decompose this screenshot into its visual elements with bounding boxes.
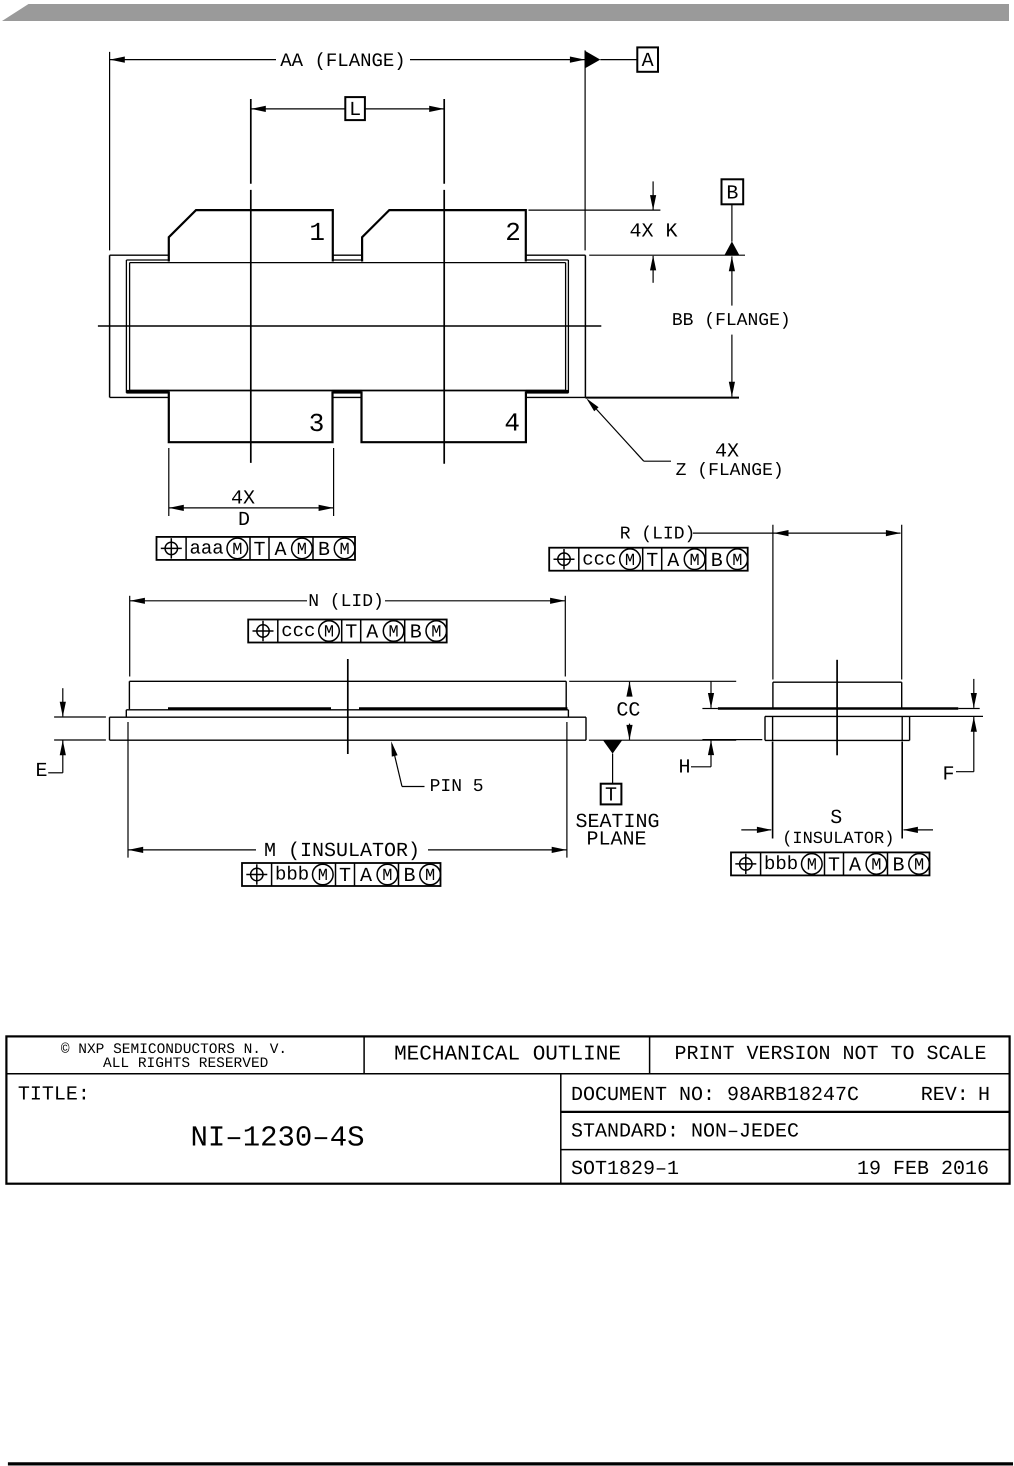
- svg-text:T: T: [646, 550, 658, 573]
- header bar: [2, 4, 1009, 21]
- svg-text:M: M: [625, 552, 635, 571]
- svg-text:ccc: ccc: [582, 548, 616, 570]
- svg-text:N (LID): N (LID): [308, 592, 384, 612]
- svg-text:Z (FLANGE): Z (FLANGE): [676, 461, 784, 481]
- svg-text:R (LID): R (LID): [620, 524, 696, 544]
- dimension N (LID): [129, 596, 131, 677]
- svg-text:T: T: [828, 855, 840, 878]
- svg-text:4X: 4X: [231, 488, 255, 511]
- svg-text:H: H: [978, 1084, 990, 1107]
- lid (end view): [772, 682, 774, 708]
- feature control frame ccc (R): [549, 548, 748, 571]
- leads (front view): [168, 707, 331, 709]
- svg-text:B: B: [892, 855, 904, 878]
- insulator (end view): [765, 715, 910, 717]
- leader PIN 5: [392, 744, 402, 787]
- title block table: [6, 1036, 1009, 1183]
- lid outline inner (top view): [129, 263, 131, 391]
- feature control frame aaa: [157, 537, 356, 560]
- dimension E: [54, 716, 106, 718]
- svg-text:M: M: [324, 624, 334, 643]
- svg-text:BB (FLANGE): BB (FLANGE): [672, 311, 791, 331]
- datum T seating plane symbol: [603, 740, 622, 753]
- svg-text:4: 4: [504, 408, 520, 438]
- footer rule: [8, 1462, 1013, 1465]
- svg-text:T: T: [345, 622, 357, 645]
- svg-text:STANDARD: NON–JEDEC: STANDARD: NON–JEDEC: [571, 1121, 799, 1144]
- svg-text:A: A: [849, 855, 861, 878]
- svg-text:M (INSULATOR): M (INSULATOR): [264, 840, 420, 863]
- lid outline outer (top view): [125, 260, 127, 393]
- svg-text:ALL RIGHTS RESERVED: ALL RIGHTS RESERVED: [103, 1056, 268, 1072]
- svg-text:T: T: [605, 785, 617, 808]
- svg-text:B: B: [726, 182, 738, 205]
- svg-text:3: 3: [309, 409, 325, 439]
- flange outline (top view): [109, 255, 111, 397]
- svg-text:A: A: [667, 550, 679, 573]
- svg-text:CC: CC: [616, 700, 640, 723]
- svg-text:(INSULATOR): (INSULATOR): [782, 830, 894, 849]
- centerline (front view): [347, 659, 349, 754]
- svg-text:M: M: [388, 624, 398, 643]
- svg-text:AA (FLANGE): AA (FLANGE): [280, 50, 405, 72]
- leads (end view): [718, 707, 958, 709]
- svg-text:B: B: [403, 865, 415, 888]
- svg-text:M: M: [425, 867, 435, 886]
- svg-text:M: M: [871, 857, 881, 876]
- svg-text:M: M: [689, 552, 699, 571]
- dimension S (INSULATOR): [772, 742, 774, 839]
- dimension F: [958, 708, 979, 710]
- datum B symbol: [722, 179, 744, 204]
- svg-text:L: L: [349, 99, 361, 122]
- feature control frame bbb (M): [242, 863, 441, 886]
- svg-text:H: H: [678, 757, 690, 780]
- dimension L: [251, 108, 345, 110]
- pin 2: [362, 210, 526, 261]
- svg-text:M: M: [914, 857, 924, 876]
- svg-text:MECHANICAL OUTLINE: MECHANICAL OUTLINE: [394, 1043, 621, 1066]
- svg-text:M: M: [732, 552, 742, 571]
- svg-text:F: F: [942, 764, 954, 787]
- dimension 4X D: [168, 448, 170, 516]
- svg-text:PIN 5: PIN 5: [430, 777, 484, 797]
- svg-text:D: D: [238, 509, 250, 532]
- insulator (front view): [126, 709, 568, 711]
- svg-text:REV:: REV:: [921, 1084, 969, 1107]
- svg-text:E: E: [35, 760, 47, 783]
- pin 5 pad (front view): [110, 716, 587, 718]
- svg-text:M: M: [339, 541, 349, 560]
- dimension BB (FLANGE): [731, 256, 733, 305]
- svg-text:M: M: [318, 867, 328, 886]
- dimension 4X K: [529, 209, 661, 211]
- lid (front view): [128, 681, 130, 709]
- svg-text:M: M: [297, 541, 307, 560]
- dimension M (INSULATOR): [127, 722, 129, 858]
- svg-text:DOCUMENT NO: 98ARB18247C: DOCUMENT NO: 98ARB18247C: [571, 1084, 859, 1107]
- svg-text:SOT1829–1: SOT1829–1: [571, 1158, 679, 1181]
- svg-text:PRINT VERSION NOT TO SCALE: PRINT VERSION NOT TO SCALE: [674, 1043, 986, 1066]
- horizontal centerline (top view): [98, 325, 601, 327]
- svg-text:19 FEB 2016: 19 FEB 2016: [857, 1158, 989, 1181]
- svg-text:NI–1230–4S: NI–1230–4S: [190, 1122, 364, 1155]
- svg-text:2: 2: [505, 218, 521, 248]
- svg-text:TITLE:: TITLE:: [18, 1084, 90, 1107]
- feature control frame ccc (N): [248, 620, 447, 643]
- svg-text:A: A: [642, 50, 654, 73]
- centerline (end view): [836, 660, 838, 756]
- pin 3: [169, 392, 333, 443]
- svg-text:M: M: [431, 624, 441, 643]
- svg-text:1: 1: [309, 218, 325, 248]
- leader Z (FLANGE): [588, 400, 644, 461]
- svg-text:B: B: [410, 622, 422, 645]
- svg-text:S: S: [830, 807, 842, 830]
- vertical centerline pins 1-3: [250, 99, 252, 184]
- feature control frame bbb (S): [731, 852, 930, 875]
- svg-text:A: A: [360, 865, 372, 888]
- svg-text:4X K: 4X K: [629, 221, 677, 244]
- svg-text:T: T: [253, 539, 265, 562]
- dimension CC: [569, 680, 736, 682]
- svg-text:A: A: [366, 622, 378, 645]
- datum A symbol: [585, 51, 600, 68]
- svg-text:B: B: [711, 550, 723, 573]
- pin 1: [169, 210, 333, 261]
- svg-text:M: M: [232, 541, 242, 560]
- svg-text:ccc: ccc: [281, 620, 315, 642]
- dimension AA (FLANGE): [109, 52, 111, 251]
- dimension H: [702, 708, 718, 710]
- svg-text:M: M: [382, 867, 392, 886]
- svg-text:B: B: [318, 539, 330, 562]
- pin 4: [362, 392, 526, 443]
- svg-text:aaa: aaa: [190, 538, 224, 560]
- vertical centerline pins 2-4: [443, 99, 445, 184]
- svg-text:bbb: bbb: [275, 864, 309, 886]
- svg-text:M: M: [807, 857, 817, 876]
- svg-text:T: T: [339, 865, 351, 888]
- svg-text:PLANE: PLANE: [586, 829, 646, 852]
- svg-text:bbb: bbb: [764, 853, 798, 875]
- svg-text:A: A: [274, 539, 286, 562]
